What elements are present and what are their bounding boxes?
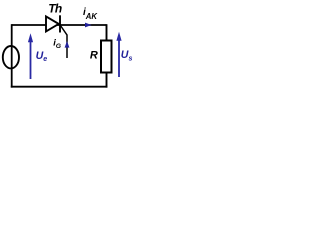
current arrow iAK (blue head right on top wire) — [85, 23, 92, 28]
voltage arrow Ue (blue, up) — [30, 40, 32, 79]
wire bottom — [11, 86, 108, 88]
wire right lower — [106, 72, 108, 88]
svg-text:R: R — [90, 50, 98, 62]
thyristor cathode bar — [59, 15, 61, 32]
svg-text:Th: Th — [48, 1, 62, 15]
source Ue ellipse — [3, 46, 19, 68]
current arrow iG (blue head up) — [65, 41, 70, 48]
thyristor gate wire — [61, 26, 67, 58]
svg-text:Ue: Ue — [36, 50, 48, 63]
thyristor Th triangle (anode) — [46, 16, 59, 31]
wire right upper — [106, 24, 108, 41]
wire top — [12, 24, 107, 26]
wire left — [11, 24, 13, 87]
voltage arrow Us (blue, up) — [118, 39, 120, 77]
svg-text:Us: Us — [121, 49, 133, 62]
resistor R body — [101, 41, 112, 73]
svg-text:iG: iG — [53, 37, 62, 51]
svg-text:iAK: iAK — [83, 7, 98, 21]
